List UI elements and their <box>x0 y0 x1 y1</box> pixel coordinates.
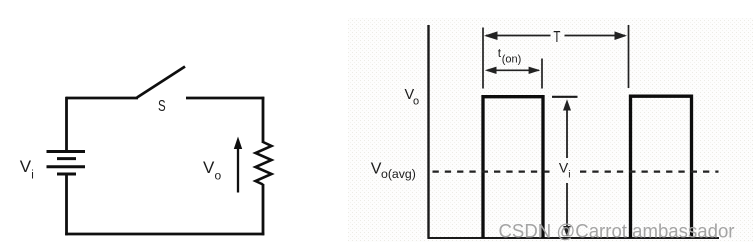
extension line at second pulse left edge (for T) <box>628 25 630 88</box>
switch S (open blade) <box>137 67 185 98</box>
svg-text:(on): (on) <box>502 53 522 65</box>
pulse 2 of Vo waveform <box>631 96 692 238</box>
extension line at first pulse right edge (for t(on)) <box>541 59 543 89</box>
label Vo (axis level) <box>405 87 420 108</box>
waveform baseline (time axis) <box>428 237 720 239</box>
battery Vi : plate 4 (short, -) <box>57 173 76 176</box>
svg-text:o(avg): o(avg) <box>381 167 416 181</box>
svg-text:i: i <box>31 169 34 181</box>
arrow Vo (output voltage arrow, pointing up) <box>234 137 242 193</box>
pulse 1 of Vo waveform <box>483 97 543 238</box>
wire: right vertical lower (resistor bottom to bottom corner) <box>262 184 265 235</box>
wire: left vertical lower (battery - plate down to bottom corner) <box>65 174 68 235</box>
Vi measure: top reference tick <box>552 96 578 98</box>
extension line at first pulse left edge (for T and t(on)) <box>482 28 484 89</box>
label Vi (amplitude) <box>559 160 571 181</box>
svg-text:V: V <box>20 157 32 176</box>
wire: bottom segment <box>65 233 264 236</box>
label Vo(avg) <box>371 161 416 181</box>
dimension arrow for period T <box>484 31 627 40</box>
battery Vi : plate 2 (short, -) <box>57 157 76 160</box>
battery Vi : plate 3 (long, +) <box>47 165 86 168</box>
svg-text:o: o <box>215 169 222 183</box>
waveform vertical axis <box>427 25 429 239</box>
svg-text:CSDN @Carrot ambassador: CSDN @Carrot ambassador <box>499 221 736 242</box>
resistor R load (zigzag) <box>256 142 272 185</box>
dimension arrow for t(on) <box>485 67 541 74</box>
svg-text:i: i <box>568 169 570 181</box>
svg-text:V: V <box>203 158 215 177</box>
wire: right vertical upper (corner down to resistor top) <box>262 97 265 143</box>
wire: top-left segment (from battery top to switch pivot) <box>66 97 138 100</box>
label Vo (across load) <box>203 158 222 183</box>
dashed average level line Vo(avg) <box>433 171 719 173</box>
label t(on) <box>498 46 521 65</box>
background tint of right-hand plot area <box>348 18 753 242</box>
wire: top-right segment (switch contact to top-right corner) <box>186 97 264 100</box>
svg-text:o: o <box>413 96 419 108</box>
battery Vi : plate 1 (long, +) <box>47 150 86 153</box>
label Vi (source) <box>20 157 34 181</box>
svg-text:T: T <box>553 27 560 45</box>
wire: left vertical upper (top corner down to battery + plate) <box>65 97 68 152</box>
Vi measure arrow (vertical, double headed) <box>563 99 571 237</box>
svg-text:S: S <box>158 97 166 114</box>
